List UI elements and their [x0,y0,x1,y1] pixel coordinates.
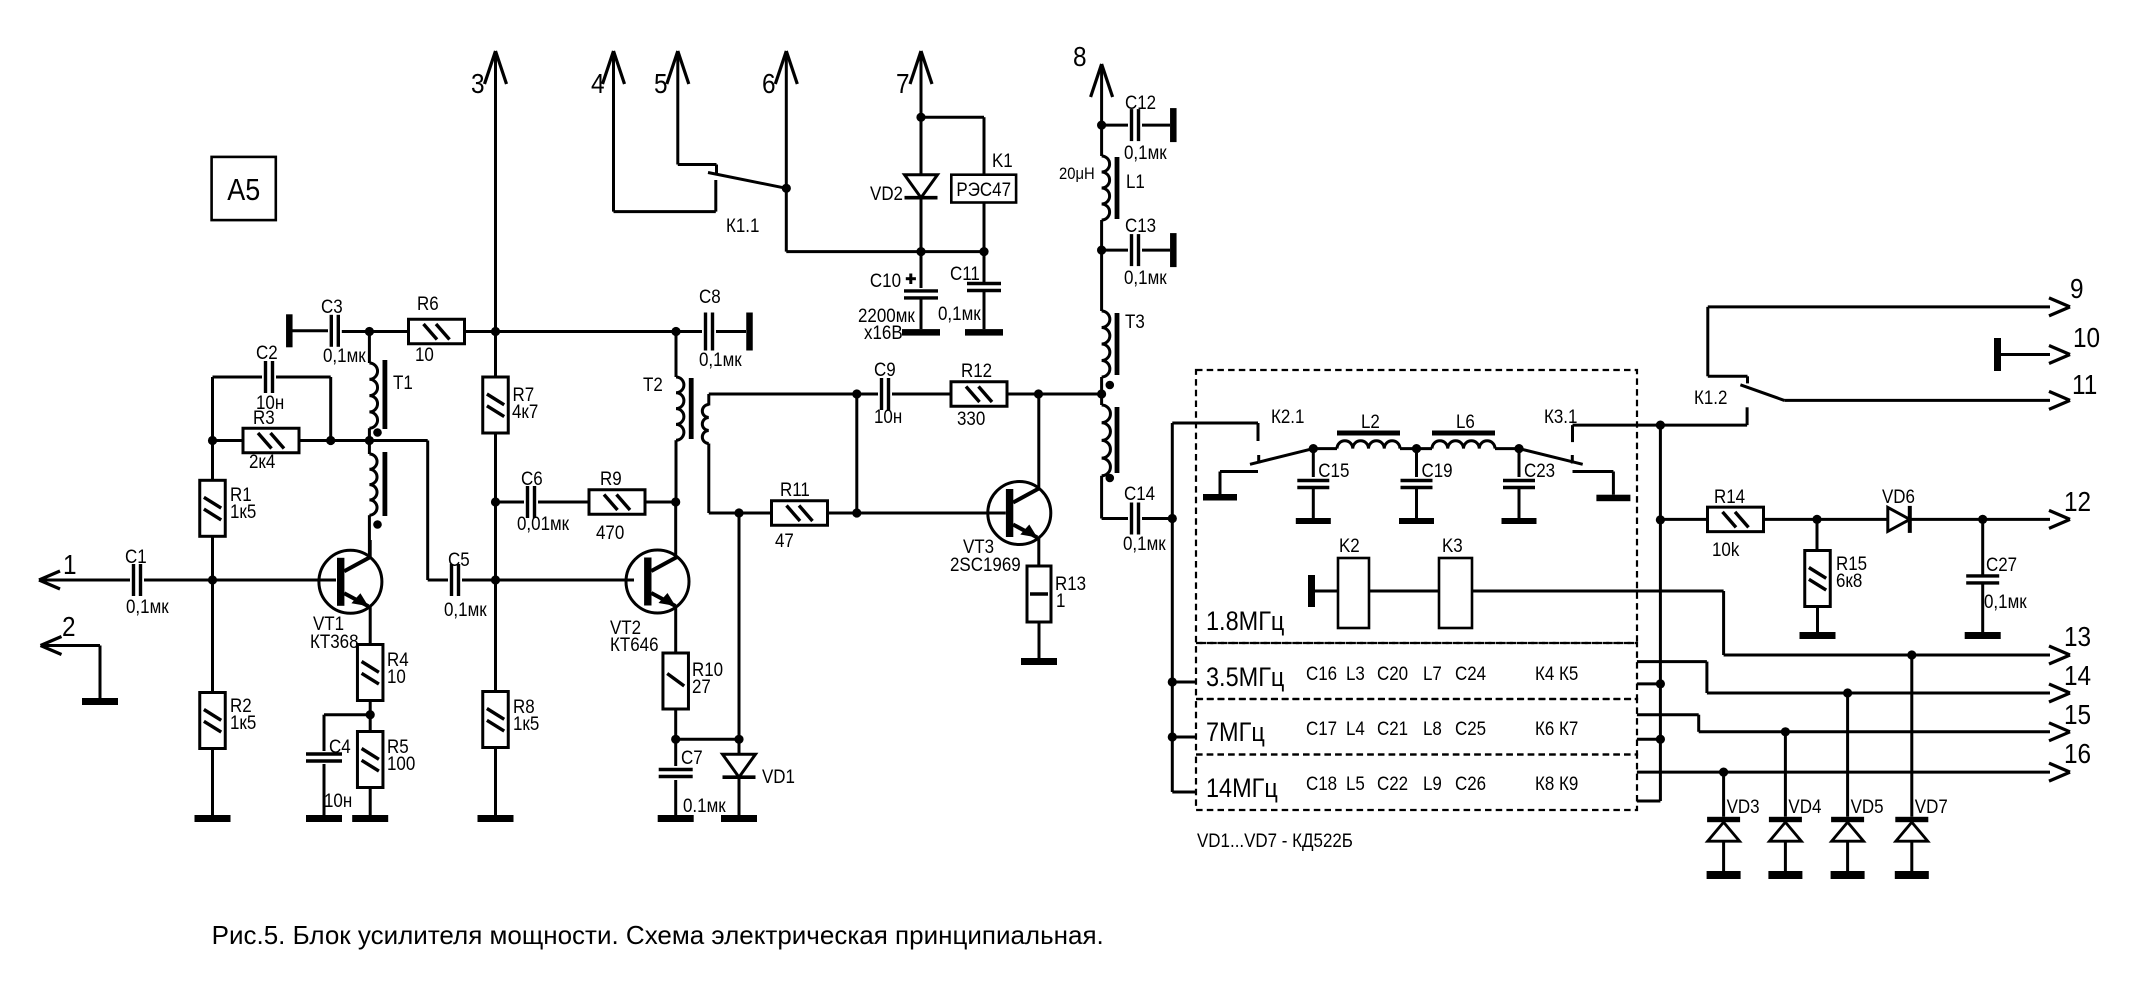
svg-text:27: 27 [692,675,711,697]
svg-text:С21: С21 [1377,717,1408,739]
svg-text:VD7: VD7 [1915,795,1948,817]
svg-text:16: 16 [2064,737,2091,769]
svg-text:14: 14 [2064,659,2091,691]
svg-text:8: 8 [1073,40,1087,72]
svg-text:VD1: VD1 [762,765,795,787]
svg-text:0,1мк: 0,1мк [323,344,367,366]
svg-text:K2: K2 [1339,534,1360,556]
svg-text:T1: T1 [393,371,413,393]
svg-text:К4 К5: К4 К5 [1535,662,1578,684]
svg-text:13: 13 [2064,620,2091,652]
svg-text:11: 11 [2072,368,2097,400]
svg-text:C13: C13 [1125,214,1156,236]
svg-text:1: 1 [1056,589,1065,611]
svg-text:C11: C11 [950,262,980,284]
svg-text:7: 7 [896,67,910,99]
svg-text:C3: C3 [321,295,343,317]
svg-text:C19: C19 [1422,459,1453,481]
svg-text:К6 К7: К6 К7 [1535,717,1578,739]
svg-text:L2: L2 [1361,410,1380,432]
svg-text:100: 100 [387,752,415,774]
svg-text:20μН: 20μН [1059,165,1095,183]
svg-text:C2: C2 [256,341,278,363]
svg-text:К2.1: К2.1 [1271,405,1304,427]
svg-text:К8 К9: К8 К9 [1535,772,1578,794]
svg-text:L9: L9 [1423,772,1442,794]
svg-text:L7: L7 [1423,662,1442,684]
svg-text:VD4: VD4 [1788,795,1821,817]
svg-text:К1.1: К1.1 [726,214,759,236]
svg-text:КТ646: КТ646 [610,633,659,655]
svg-text:R12: R12 [961,359,992,381]
svg-text:0,1мк: 0,1мк [444,598,488,620]
svg-text:14МГц: 14МГц [1206,774,1278,804]
svg-text:VD1...VD7 - КД522Б: VD1...VD7 - КД522Б [1197,829,1353,851]
svg-text:0,01мк: 0,01мк [517,512,570,534]
svg-text:VD3: VD3 [1727,795,1760,817]
svg-text:330: 330 [957,407,985,429]
svg-text:C4: C4 [329,735,351,757]
svg-text:R14: R14 [1714,485,1745,507]
svg-text:2SC1969: 2SC1969 [950,553,1021,575]
svg-text:K1: K1 [992,149,1013,171]
svg-text:1.8МГц: 1.8МГц [1206,607,1284,637]
svg-text:C6: C6 [521,467,543,489]
svg-text:K3: K3 [1442,534,1463,556]
svg-text:L8: L8 [1423,717,1442,739]
svg-text:C7: C7 [681,746,703,768]
svg-text:0,1мк: 0,1мк [699,348,743,370]
svg-text:C12: C12 [1125,91,1156,113]
svg-text:0,1мк: 0,1мк [938,302,982,324]
svg-text:0,1мк: 0,1мк [126,595,170,617]
svg-text:С20: С20 [1377,662,1408,684]
svg-text:С18: С18 [1306,772,1337,794]
svg-text:0,1мк: 0,1мк [1984,590,2028,612]
svg-text:К3.1: К3.1 [1544,405,1577,427]
svg-text:T2: T2 [643,373,663,395]
svg-text:К1.2: К1.2 [1694,386,1727,408]
svg-text:С24: С24 [1455,662,1486,684]
svg-text:470: 470 [596,521,624,543]
svg-text:R9: R9 [600,467,622,489]
svg-text:С26: С26 [1455,772,1486,794]
svg-text:0,1мк: 0,1мк [1124,141,1168,163]
svg-text:C15: C15 [1318,459,1349,481]
svg-text:L1: L1 [1126,170,1145,192]
svg-text:L3: L3 [1346,662,1365,684]
svg-text:VD6: VD6 [1882,485,1915,507]
svg-text:6к8: 6к8 [1836,569,1862,591]
svg-text:47: 47 [775,529,794,551]
svg-text:С17: С17 [1306,717,1337,739]
svg-text:С16: С16 [1306,662,1337,684]
svg-text:2к4: 2к4 [249,450,275,472]
svg-text:10: 10 [387,665,406,687]
svg-text:C8: C8 [699,285,721,307]
svg-text:5: 5 [654,67,668,99]
svg-text:L5: L5 [1346,772,1365,794]
svg-text:10н: 10н [324,789,352,811]
svg-text:10н: 10н [874,405,902,427]
svg-text:3: 3 [471,67,485,99]
svg-text:0.1мк: 0.1мк [683,794,727,816]
svg-text:РЭС47: РЭС47 [956,178,1011,200]
svg-text:12: 12 [2064,485,2091,517]
svg-text:VD2: VD2 [870,182,903,204]
svg-text:10: 10 [415,343,434,365]
svg-text:C5: C5 [448,548,470,570]
svg-text:6: 6 [762,67,776,99]
svg-text:1к5: 1к5 [513,712,539,734]
svg-text:х16В: х16В [864,321,903,343]
svg-text:R6: R6 [417,292,439,314]
svg-text:L4: L4 [1346,717,1365,739]
svg-text:C23: C23 [1524,459,1555,481]
svg-text:VD5: VD5 [1851,795,1884,817]
svg-text:L6: L6 [1456,410,1475,432]
svg-text:15: 15 [2064,698,2091,730]
svg-text:C10: C10 [870,269,901,291]
svg-text:C9: C9 [874,358,896,380]
svg-text:7МГц: 7МГц [1206,718,1265,748]
svg-text:A5: A5 [227,173,260,207]
svg-text:Рис.5. Блок усилителя мощности: Рис.5. Блок усилителя мощности. Схема эл… [212,920,1104,950]
svg-text:4: 4 [591,67,605,99]
svg-text:1к5: 1к5 [230,711,256,733]
svg-text:R11: R11 [780,478,810,500]
svg-text:10: 10 [2073,321,2100,353]
svg-text:С25: С25 [1455,717,1486,739]
svg-text:2: 2 [62,610,76,642]
svg-text:10k: 10k [1712,538,1740,560]
svg-text:1: 1 [63,548,77,580]
svg-text:C1: C1 [125,545,147,567]
svg-text:4к7: 4к7 [512,400,538,422]
svg-text:T3: T3 [1125,310,1145,332]
svg-text:0,1мк: 0,1мк [1123,532,1167,554]
svg-text:КТ368: КТ368 [310,630,359,652]
svg-text:9: 9 [2070,272,2084,304]
svg-text:1к5: 1к5 [230,500,256,522]
svg-text:C14: C14 [1124,482,1155,504]
svg-text:С22: С22 [1377,772,1408,794]
svg-text:3.5МГц: 3.5МГц [1206,663,1284,693]
svg-text:R3: R3 [253,406,275,428]
svg-text:C27: C27 [1986,553,2017,575]
svg-text:0,1мк: 0,1мк [1124,266,1168,288]
